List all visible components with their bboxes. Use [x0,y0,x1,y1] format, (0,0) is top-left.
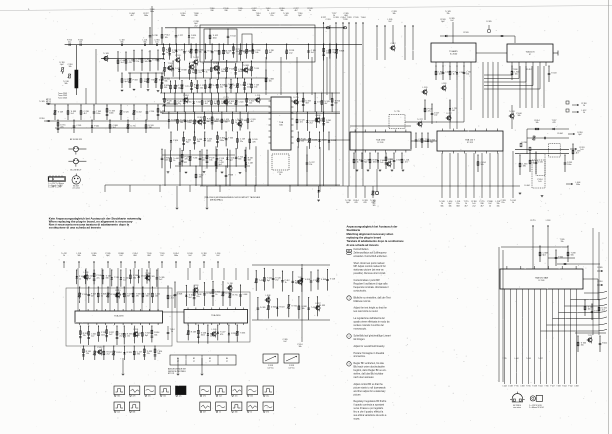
svg-text:2n2: 2n2 [602,310,605,312]
svg-text:D 305: D 305 [486,21,491,23]
svg-text:T 715: T 715 [502,358,506,360]
svg-text:330: 330 [238,71,241,73]
svg-text:470: 470 [215,121,218,123]
svg-text:2u2: 2u2 [160,255,163,257]
svg-text:Tr 412: Tr 412 [193,56,198,59]
svg-text:nach oben anrastet.: nach oben anrastet. [354,376,375,379]
svg-text:La regolazione dell'altezza de: La regolazione dell'altezza del [354,317,386,320]
svg-text:56k: 56k [481,164,484,166]
svg-text:4k7: 4k7 [214,70,217,72]
svg-text:8p2: 8p2 [441,21,444,23]
svg-text:C 201: C 201 [325,19,330,21]
svg-text:56k: 56k [157,353,160,355]
svg-text:D 715: D 715 [131,126,136,128]
svg-text:2 = Masse/Tr 5014: 2 = Masse/Tr 5014 [529,406,544,409]
svg-text:1k: 1k [583,112,585,114]
svg-text:8p2: 8p2 [430,142,433,144]
svg-text:100n: 100n [174,255,178,257]
svg-text:0,2 Vss: 0,2 Vss [268,367,274,369]
svg-text:L 118: L 118 [248,163,253,165]
svg-text:TDA 2690: TDA 2690 [211,314,221,317]
svg-text:1n5: 1n5 [380,162,383,164]
svg-text:8p2: 8p2 [60,64,63,66]
svg-text:56k: 56k [221,71,224,73]
svg-text:2n2: 2n2 [275,280,278,282]
svg-text:8p2: 8p2 [295,283,298,285]
svg-text:1k: 1k [171,331,173,333]
svg-text:4k7: 4k7 [91,296,94,298]
svg-text:15k: 15k [560,241,563,243]
svg-text:330: 330 [137,354,140,356]
svg-text:T 444: T 444 [361,17,366,19]
svg-text:100n: 100n [213,37,217,39]
svg-text:2n2: 2n2 [171,298,174,300]
svg-text:MP. Adjust control marked Z fo: MP. Adjust control marked Z for [354,265,387,268]
svg-text:15k: 15k [209,160,212,162]
svg-text:T 118: T 118 [194,285,199,287]
svg-text:470: 470 [363,202,366,204]
svg-text:TDA 1170: TDA 1170 [525,51,535,54]
svg-text:P 227: P 227 [550,386,554,388]
svg-text:330: 330 [164,87,167,89]
svg-text:8p2: 8p2 [578,134,581,136]
svg-text:2u2: 2u2 [159,279,162,281]
svg-text:27: 27 [226,361,228,363]
svg-text:P 520: P 520 [354,17,359,19]
svg-text:10k: 10k [588,309,591,311]
svg-text:27: 27 [209,361,211,363]
svg-text:470: 470 [185,159,188,161]
svg-text:22u: 22u [202,160,205,162]
svg-text:B3: B3 [209,358,211,360]
svg-text:D 238: D 238 [207,293,212,295]
svg-text:6k8: 6k8 [133,412,136,414]
svg-text:22u: 22u [240,141,243,143]
svg-text:T 916: T 916 [151,80,156,82]
svg-text:P 444: P 444 [242,120,247,122]
svg-text:TDA 1330: TDA 1330 [376,139,386,142]
svg-text:470: 470 [191,38,194,40]
svg-text:2n2: 2n2 [388,21,391,23]
svg-text:L 808: L 808 [316,115,321,117]
svg-text:verso il basso e poi regolarlo: verso il basso e poi regolarlo [354,407,384,410]
svg-text:56k: 56k [197,141,200,143]
svg-text:beginnt, dann Regler BF so ein: beginnt, dann Regler BF so ein- [354,369,387,372]
svg-text:22u: 22u [266,396,269,398]
svg-text:15k: 15k [466,74,469,76]
svg-text:BTX 31: BTX 31 [168,373,174,375]
svg-text:5 = UHF 6 = VHF: 5 = UHF 6 = VHF [48,187,62,189]
svg-text:C 444: C 444 [418,139,423,141]
svg-text:B2: B2 [193,358,195,360]
svg-text:R 444: R 444 [557,133,562,135]
svg-text:1k: 1k [79,278,81,280]
svg-text:100n: 100n [96,113,100,115]
svg-text:L 118: L 118 [546,220,551,222]
svg-text:bildkreis rund ist.: bildkreis rund ist. [354,300,372,303]
svg-text:330: 330 [194,15,197,17]
svg-text:2n2: 2n2 [189,297,192,299]
svg-text:2n2: 2n2 [310,123,313,125]
svg-text:2u2: 2u2 [283,341,286,343]
svg-text:100n: 100n [92,255,96,257]
svg-text:10k: 10k [155,296,158,298]
svg-text:P 520: P 520 [176,55,181,57]
svg-text:2u2: 2u2 [219,160,222,162]
svg-text:22u: 22u [199,72,202,74]
svg-text:Anpassungsabgleich bei Austaus: Anpassungsabgleich bei Austausch der [347,225,398,229]
svg-text:1k: 1k [219,412,221,414]
svg-text:15k: 15k [446,13,449,15]
svg-text:D 118: D 118 [331,140,336,142]
svg-text:470: 470 [252,141,255,143]
svg-text:2u2: 2u2 [91,336,94,338]
svg-text:T 227: T 227 [588,335,593,337]
svg-text:10k: 10k [165,37,168,39]
svg-text:2n2: 2n2 [311,52,314,54]
svg-text:8p2: 8p2 [543,255,546,257]
svg-text:Tr 109: Tr 109 [103,52,108,55]
svg-text:1k: 1k [583,105,585,107]
svg-text:6k8: 6k8 [147,255,150,257]
svg-text:picture starts to roll downwar: picture starts to roll downwards [354,386,387,389]
svg-text:2u2: 2u2 [434,115,437,117]
svg-text:BF 324 BF 325: BF 324 BF 325 [70,139,82,141]
svg-text:T 333: T 333 [556,386,560,388]
svg-text:L 520: L 520 [423,87,428,89]
svg-text:15k: 15k [225,121,228,123]
svg-text:Kurzschließen.: Kurzschließen. [354,248,370,251]
svg-text:1n5: 1n5 [439,74,442,76]
svg-text:Adjust for overall field linea: Adjust for overall field linearity. [354,345,386,348]
svg-text:100n: 100n [150,11,154,13]
svg-text:R 305: R 305 [197,117,202,119]
svg-text:T 333: T 333 [228,138,233,140]
svg-text:330: 330 [224,10,227,12]
svg-text:100n: 100n [144,15,148,17]
svg-text:Adjust control BF so that the: Adjust control BF so that the [354,383,384,386]
svg-text:22u: 22u [501,202,504,204]
svg-text:R 412: R 412 [602,343,607,345]
svg-text:10k: 10k [269,81,272,83]
svg-text:T 916: T 916 [544,386,548,388]
svg-text:6k8: 6k8 [248,160,251,162]
svg-text:D 227: D 227 [315,303,320,305]
svg-text:IC 101: IC 101 [377,142,384,144]
svg-text:Tr 118: Tr 118 [145,272,150,275]
svg-text:Tr 238: Tr 238 [152,34,157,37]
svg-text:D 333: D 333 [213,63,218,65]
svg-text:(TDA 1200 B) MONTAGEHINWEIS:: (TDA 1200 B) MONTAGEHINWEIS: NUR KOMPLET… [204,196,261,199]
svg-text:1k: 1k [357,162,359,164]
svg-text:15k: 15k [86,353,89,355]
svg-text:470: 470 [133,396,136,398]
svg-text:D 333: D 333 [333,17,338,19]
svg-text:10k: 10k [515,74,518,76]
svg-text:4k7: 4k7 [269,52,272,54]
svg-text:C 412: C 412 [445,72,450,74]
svg-text:R 520: R 520 [463,32,468,34]
svg-text:Tr 227: Tr 227 [417,118,422,121]
svg-text:R 412: R 412 [526,69,531,71]
svg-text:R 614: R 614 [116,352,121,354]
svg-text:Adjust the test height so that: Adjust the test height so that the [354,307,388,310]
svg-text:22u: 22u [220,87,223,89]
svg-text:1k: 1k [333,15,335,17]
svg-text:C 227: C 227 [386,159,391,161]
svg-text:10k: 10k [535,122,538,124]
svg-text:22u: 22u [97,277,100,279]
svg-text:Tr 916: Tr 916 [291,304,296,307]
svg-text:T 238: T 238 [343,19,348,21]
svg-text:470: 470 [129,62,132,64]
svg-text:R 238: R 238 [231,333,236,335]
svg-text:330: 330 [235,412,238,414]
svg-text:330: 330 [106,278,109,280]
svg-text:D 305: D 305 [271,307,276,309]
svg-text:0,2 Vss: 0,2 Vss [289,367,295,369]
svg-text:L 808: L 808 [521,386,525,388]
svg-text:2u2: 2u2 [117,412,120,414]
svg-text:T 201: T 201 [298,277,303,279]
svg-text:15k: 15k [83,335,86,337]
svg-text:4k7: 4k7 [294,10,297,12]
svg-text:8p2: 8p2 [298,15,301,17]
svg-text:56k: 56k [143,42,146,44]
svg-text:R 715: R 715 [233,295,238,297]
svg-text:Tr 118: Tr 118 [227,282,232,285]
svg-text:Steckkarte: Steckkarte [347,228,361,232]
svg-text:einstellen. Kurzschluß entfern: einstellen. Kurzschluß entfernen. [354,255,388,258]
svg-text:8p2: 8p2 [364,162,367,164]
svg-text:P 118: P 118 [229,69,234,71]
svg-text:8p2: 8p2 [226,53,229,55]
svg-text:Tr 118: Tr 118 [330,278,335,281]
svg-text:TBA 120 T: TBA 120 T [465,139,476,142]
svg-text:replacing the plug-in board: replacing the plug-in board [347,236,382,240]
svg-text:IC 2040: IC 2040 [450,54,458,56]
svg-text:100n: 100n [576,184,580,186]
svg-text:T 614: T 614 [254,68,259,70]
svg-text:R 333: R 333 [127,352,132,354]
svg-text:8p2: 8p2 [186,142,189,144]
svg-text:56k: 56k [180,122,183,124]
svg-text:8p2: 8p2 [145,335,148,337]
svg-text:56k: 56k [77,255,80,257]
svg-text:330: 330 [167,103,170,105]
svg-text:15k: 15k [496,205,499,207]
svg-text:Tr 305: Tr 305 [39,100,44,103]
svg-text:tät bringen.: tät bringen. [354,338,366,341]
svg-text:D 412: D 412 [137,112,142,114]
svg-text:D 238: D 238 [508,386,512,388]
svg-text:D 715: D 715 [115,290,120,292]
svg-text:470: 470 [266,412,269,414]
svg-text:2u2: 2u2 [371,202,374,204]
svg-text:6k8: 6k8 [456,205,459,207]
svg-text:10k: 10k [163,396,166,398]
svg-text:6k8: 6k8 [306,103,309,105]
svg-text:1k: 1k [215,294,217,296]
svg-text:470: 470 [354,202,357,204]
svg-text:305: 305 [373,205,376,207]
svg-text:56k: 56k [280,10,283,12]
svg-text:1k: 1k [173,160,175,162]
svg-text:B4: B4 [226,358,228,360]
svg-text:sua ultima variazione da sotto: sua ultima variazione da sotto a [354,414,387,417]
svg-text:22u: 22u [147,353,150,355]
svg-text:Cortocircuitare i punti MP.: Cortocircuitare i punti MP. [354,279,381,282]
svg-text:1k: 1k [285,282,287,284]
svg-text:Tr 808: Tr 808 [305,278,310,281]
svg-text:BC 238 B/C/T: BC 238 B/C/T [70,170,82,172]
svg-text:15k: 15k [229,103,232,105]
svg-text:L 201: L 201 [134,329,139,331]
svg-text:8p2: 8p2 [125,81,128,83]
svg-text:Matching alignment necessary w: Matching alignment necessary when [347,232,394,236]
svg-text:Tr 109: Tr 109 [58,111,63,114]
svg-text:C 444: C 444 [502,386,506,388]
svg-text:L 520: L 520 [239,102,244,104]
svg-text:R 715: R 715 [526,386,530,388]
svg-text:il quadro comincia a spostarsi: il quadro comincia a spostarsi [354,404,385,407]
svg-text:D 305: D 305 [597,267,602,269]
svg-text:Regler BF verdrehen, bis das: Regler BF verdrehen, bis das [354,362,385,365]
svg-text:2u2: 2u2 [71,113,74,115]
svg-text:2n2: 2n2 [113,127,116,129]
svg-text:R 412: R 412 [562,386,566,388]
svg-text:Tr 715: Tr 715 [394,110,399,113]
svg-text:P 412: P 412 [98,347,103,349]
svg-text:100n: 100n [207,141,211,143]
svg-text:MP: MP [348,251,350,253]
svg-text:P 333: P 333 [133,80,138,82]
svg-text:R 238: R 238 [191,332,196,334]
svg-text:6k8: 6k8 [238,159,241,161]
svg-text:(BEI AUSFALL): (BEI AUSFALL) [210,199,223,202]
svg-text:P 238: P 238 [228,175,233,177]
svg-text:Tr 227: Tr 227 [538,358,543,360]
svg-text:von unten: von unten [513,406,521,409]
svg-text:1k: 1k [309,10,311,12]
svg-text:T 227: T 227 [322,139,327,141]
svg-text:sostituzione di una scheda ad: sostituzione di una scheda ad innesto [49,226,101,230]
svg-text:IC 201: IC 201 [467,142,474,144]
svg-text:L 238: L 238 [84,272,89,274]
svg-text:P 109: P 109 [82,294,87,296]
svg-text:R 118: R 118 [280,307,285,309]
svg-text:470: 470 [136,296,139,298]
svg-text:MP 12: MP 12 [46,103,51,105]
svg-text:15k: 15k [136,61,139,63]
svg-text:Tr 333: Tr 333 [240,331,245,334]
svg-text:470: 470 [284,15,287,17]
svg-text:T 715: T 715 [185,86,190,88]
svg-text:22u: 22u [428,111,431,113]
svg-text:D 238: D 238 [521,142,526,144]
svg-text:TBA 920 SAW: TBA 920 SAW [535,277,548,280]
svg-text:470: 470 [203,396,206,398]
svg-text:R 412: R 412 [538,386,542,388]
svg-text:56k: 56k [326,122,329,124]
svg-text:4k7: 4k7 [251,121,254,123]
svg-text:2u2: 2u2 [123,280,126,282]
svg-text:2n2: 2n2 [119,336,122,338]
svg-text:56k: 56k [440,205,443,207]
svg-text:1k: 1k [178,87,180,89]
svg-text:sopra.: sopra. [354,418,361,421]
svg-text:L 412: L 412 [182,162,187,164]
svg-text:picture.: picture. [354,393,362,396]
svg-text:56k: 56k [64,83,67,85]
svg-text:15k: 15k [309,164,312,166]
svg-text:100n: 100n [109,113,113,115]
svg-text:100n: 100n [220,140,224,142]
svg-text:10k: 10k [249,103,252,105]
svg-text:8p2: 8p2 [214,103,217,105]
svg-text:2u2: 2u2 [289,52,292,54]
svg-text:D 715: D 715 [293,97,298,99]
svg-text:2u2: 2u2 [107,354,110,356]
svg-text:330: 330 [523,166,526,168]
svg-text:L 201: L 201 [256,95,261,97]
svg-text:56k: 56k [517,115,520,117]
svg-text:1k: 1k [489,205,491,207]
svg-text:1n5: 1n5 [221,103,224,105]
svg-text:4k7: 4k7 [203,412,206,414]
svg-text:Tr 118: Tr 118 [551,72,556,75]
svg-text:15k: 15k [250,396,253,398]
svg-text:10k: 10k [298,346,301,348]
svg-text:and then adjust for a stationa: and then adjust for a stationary [354,390,387,393]
svg-text:2u2: 2u2 [109,334,112,336]
svg-text:C 305: C 305 [150,276,155,278]
svg-text:2u2: 2u2 [219,396,222,398]
svg-text:56k: 56k [120,42,123,44]
svg-text:1n5: 1n5 [405,162,408,164]
svg-text:8p2: 8p2 [346,202,349,204]
svg-text:monoscopio.: monoscopio. [354,329,368,331]
svg-text:4k7: 4k7 [205,103,208,105]
svg-text:P 715: P 715 [514,386,518,388]
svg-text:100n: 100n [567,164,571,166]
svg-text:L 808: L 808 [266,295,271,297]
svg-text:TV AMPL: TV AMPL [449,50,459,53]
svg-text:IC 501: IC 501 [538,280,545,282]
svg-text:L 118: L 118 [442,83,447,85]
svg-text:T 520: T 520 [168,63,173,65]
svg-text:8p2: 8p2 [267,280,270,282]
svg-text:Tr 305: Tr 305 [260,306,265,309]
svg-text:6k8: 6k8 [133,255,136,257]
svg-text:P 614: P 614 [184,95,189,97]
svg-text:100n: 100n [164,160,168,162]
svg-text:T 201: T 201 [193,158,198,160]
svg-text:D 520: D 520 [124,112,129,114]
svg-text:22u: 22u [197,296,200,298]
svg-text:27: 27 [193,361,195,363]
svg-text:di una scheda ad innesto: di una scheda ad innesto [347,243,379,247]
svg-text:56k: 56k [571,255,574,257]
svg-text:Tr 238: Tr 238 [532,386,537,388]
svg-text:10k: 10k [448,205,451,207]
svg-text:100n: 100n [373,162,377,164]
svg-text:330: 330 [199,177,202,179]
svg-text:T 916: T 916 [114,277,119,279]
svg-text:56k: 56k [117,396,120,398]
svg-text:Regolare l'oscillatore di riga: Regolare l'oscillatore di riga sulla [354,283,389,286]
svg-text:TCA: TCA [279,121,284,124]
